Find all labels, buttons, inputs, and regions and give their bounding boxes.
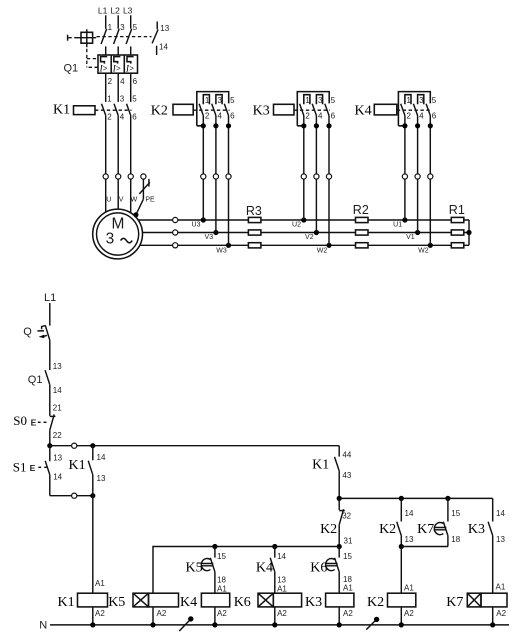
wire to K1 coil (92, 496, 94, 594)
wire K3 13 to K7 coil (492, 536, 494, 594)
svg-text:K7: K7 (446, 595, 463, 610)
svg-text:4: 4 (419, 112, 424, 121)
svg-text:K2: K2 (320, 522, 337, 537)
svg-text:W3: W3 (216, 247, 227, 254)
svg-text:L1: L1 (98, 6, 108, 16)
K2 terminal pole2 (213, 174, 218, 179)
K3 pole 1 lower wire (303, 116, 305, 221)
rotor bus 3 wire (140, 244, 469, 246)
svg-text:44: 44 (342, 450, 351, 459)
pushbutton S0 NC blade (50, 414, 54, 430)
svg-text:4: 4 (318, 112, 323, 121)
PE tick (148, 179, 150, 187)
svg-text:15: 15 (343, 552, 352, 561)
N tap 2 dot (374, 617, 379, 622)
coil K5 box (149, 593, 179, 607)
contact K3 upper wire (492, 498, 494, 521)
svg-text:1: 1 (108, 23, 113, 32)
svg-text:13: 13 (97, 474, 106, 483)
node V1 (415, 230, 420, 235)
contactor K3 pole 3 blade (325, 104, 329, 116)
svg-text:6: 6 (133, 77, 138, 86)
node N K5 (150, 622, 155, 627)
K2 node pole3 (226, 123, 231, 128)
terminal rail2 (72, 493, 77, 498)
svg-text:14: 14 (405, 509, 414, 518)
contact K3 blade (488, 522, 493, 536)
node N K7 (490, 622, 495, 627)
node K1 branch bottom (90, 493, 95, 498)
node W3 (226, 243, 231, 248)
wire W into motor (130, 179, 132, 213)
contactor K3 coil box (274, 104, 295, 115)
wire K5 coil to N (152, 607, 154, 625)
resistor R3b (248, 230, 261, 235)
svg-text:V: V (119, 196, 124, 203)
node N K6 (272, 622, 277, 627)
K3 terminal pole1 (301, 174, 306, 179)
pushbutton S1 upper wire (49, 446, 51, 462)
contact K5 delay symbol (201, 558, 213, 570)
contactor K1 pole 3 blade (127, 104, 131, 116)
svg-text:13: 13 (160, 24, 169, 33)
svg-text:K4: K4 (180, 595, 197, 610)
contact Q1 aux blade (45, 370, 50, 385)
svg-text:A1: A1 (277, 584, 287, 593)
svg-text:22: 22 (53, 431, 62, 440)
node N K2 (399, 622, 404, 627)
node rail2r K2no (399, 496, 404, 501)
svg-text:5: 5 (432, 96, 437, 105)
Q1 aux contact lower tick (156, 46, 158, 55)
contactor K1 link dashed (95, 109, 132, 111)
svg-text:K6: K6 (234, 595, 251, 610)
contactor K2 coil box (173, 104, 193, 115)
svg-text:1: 1 (305, 96, 310, 105)
K3 pole 3 lower wire (328, 116, 330, 246)
rail2 left wire (50, 495, 93, 497)
svg-text:K4: K4 (355, 104, 372, 119)
contactor K2 pole 3 blade (224, 104, 228, 116)
wire K1 43 to rail2r (338, 471, 340, 499)
svg-text:K7: K7 (417, 522, 434, 537)
svg-text:4: 4 (218, 112, 223, 121)
svg-text:3: 3 (218, 96, 223, 105)
coil K4 box (201, 593, 229, 607)
contact K7 blade (443, 522, 448, 536)
svg-text:13: 13 (405, 535, 414, 544)
svg-text:5: 5 (331, 96, 336, 105)
svg-text:3: 3 (318, 96, 323, 105)
N tap 1 dot (188, 616, 193, 621)
breaker Q1 trip unit box (98, 55, 138, 73)
switch Q latch (37, 326, 45, 331)
Q1 aux contact upper tick (156, 22, 158, 30)
coil K2 box (388, 593, 416, 607)
svg-text:5: 5 (132, 94, 137, 103)
wire K4 coil to N (214, 607, 216, 625)
svg-text:K1: K1 (312, 457, 329, 472)
right closure wire (468, 220, 470, 245)
rotor bus 1 wire (138, 219, 469, 221)
terminal rotor bus 2 (173, 230, 178, 235)
svg-text:A2: A2 (217, 609, 227, 618)
svg-text:R2: R2 (353, 203, 369, 217)
node right closure (466, 230, 471, 235)
Q1 actuator square (81, 32, 93, 43)
Q1 actuator cross horizontal (77, 37, 96, 39)
svg-text:U3: U3 (192, 221, 201, 228)
K4 pole 1 lower wire (404, 116, 406, 221)
switch Q blade (45, 325, 50, 340)
svg-text:K5: K5 (185, 561, 202, 576)
wire K1 to motor W (130, 115, 132, 173)
contactor K1 pole 1 blade (102, 104, 106, 116)
K3 pole 2 lower wire (315, 116, 317, 233)
svg-text:18: 18 (451, 535, 460, 544)
PE junction dot on motor (133, 212, 138, 217)
Q1 actuator cross vertical (86, 29, 88, 47)
svg-text:K1: K1 (53, 103, 70, 118)
contactor K3 pole 1 blade (300, 104, 304, 116)
terminal PE (141, 174, 146, 179)
svg-text:U1: U1 (393, 221, 402, 228)
svg-text:5: 5 (230, 96, 235, 105)
contactor K4 bridge comb (398, 92, 430, 126)
svg-text:2: 2 (108, 77, 113, 86)
svg-text:L3: L3 (123, 6, 133, 16)
motor M1 outer circle (93, 209, 143, 259)
K3 terminal pole2 (314, 174, 319, 179)
pushbutton S1 NO blade (45, 461, 50, 475)
motor label ~ (121, 238, 133, 242)
terminal rail1 (72, 443, 77, 448)
svg-text:K2: K2 (379, 522, 396, 537)
K4 terminal pole1 (402, 174, 407, 179)
K3 node pole1 (301, 123, 306, 128)
svg-text:1: 1 (205, 96, 210, 105)
node K1 branch top (90, 443, 95, 448)
Q1 dashed stub lower (89, 66, 98, 68)
svg-text:18: 18 (217, 576, 226, 585)
svg-text:S1: S1 (13, 460, 27, 475)
contact K6 delay symbol (326, 558, 338, 570)
node K5 contact top (212, 544, 217, 549)
K3 node pole3 (326, 123, 331, 128)
svg-text:A1: A1 (404, 583, 414, 592)
rotor bus 2 wire (143, 232, 470, 234)
wire Q1 to K1 phase 2 (117, 46, 119, 55)
svg-text:A1: A1 (95, 579, 105, 588)
contact K1 aux blade (88, 461, 93, 475)
svg-text:K5: K5 (108, 595, 125, 610)
svg-text:N: N (39, 620, 47, 632)
svg-text:15: 15 (217, 552, 226, 561)
svg-text:43: 43 (342, 471, 351, 480)
svg-text:A2: A2 (95, 609, 105, 618)
contact K1 aux upper wire (92, 446, 94, 461)
svg-text:6: 6 (331, 112, 336, 121)
wire K7 18 to link (447, 536, 449, 547)
svg-text:K1: K1 (69, 458, 86, 473)
contactor K3 link dashed (294, 109, 330, 111)
wire K2-K7 bottom link (401, 546, 448, 548)
wire Q1 to K1 phase 3 (130, 46, 132, 55)
svg-text:R1: R1 (449, 203, 465, 217)
breaker Q1 pole 3 blade (126, 29, 132, 44)
K4 node pole2 (415, 123, 420, 128)
motor M1 inner circle (97, 213, 139, 255)
svg-text:A2: A2 (496, 609, 506, 618)
svg-text:>: > (103, 64, 108, 73)
svg-text:A1: A1 (343, 583, 353, 592)
resistor R2a (356, 217, 369, 222)
svg-text:14: 14 (277, 552, 286, 561)
wire Q1 to S0 (49, 385, 51, 416)
resistor R1c (451, 243, 464, 248)
svg-text:2: 2 (205, 112, 210, 121)
Q1 handle dashed link (68, 37, 81, 39)
svg-text:V1: V1 (406, 234, 415, 241)
N tap 2 slash (366, 621, 375, 630)
coil K6 timer box (258, 593, 273, 607)
svg-text:14: 14 (97, 453, 106, 462)
rail2 right wire (339, 497, 493, 499)
Q1 aux contact blade (152, 29, 158, 43)
K2 pole 2 lower wire (215, 116, 217, 233)
svg-text:32: 32 (342, 511, 351, 520)
N tap 1 slash (179, 620, 190, 631)
svg-text:L1: L1 (44, 292, 56, 304)
Q1 mechanical linkage dashed (97, 36, 152, 38)
coil K1 box (78, 593, 108, 607)
svg-text:K3: K3 (468, 522, 485, 537)
wire S0 to rail1 (49, 430, 51, 446)
node U3 (201, 217, 206, 222)
contactor K3 pole 2 blade (312, 104, 316, 116)
wire K2 coil drop (400, 547, 402, 594)
svg-text:U2: U2 (292, 221, 301, 228)
wire K5 18 to K4 coil (214, 572, 216, 593)
svg-text:W2: W2 (317, 247, 328, 254)
node W2 (326, 243, 331, 248)
svg-text:L2: L2 (110, 6, 120, 16)
K2 node pole2 (213, 123, 218, 128)
Q1 latch symbol cell 3 (127, 57, 134, 64)
svg-text:K2: K2 (367, 595, 384, 610)
svg-text:R3: R3 (246, 204, 262, 218)
svg-text:>: > (129, 64, 134, 73)
terminal V (116, 174, 121, 179)
svg-text:S0: S0 (13, 413, 27, 428)
contact K5 blade (210, 558, 215, 572)
svg-text:A2: A2 (343, 609, 353, 618)
svg-text:13: 13 (496, 535, 505, 544)
coil K3 box (326, 593, 354, 607)
node V3 (213, 230, 218, 235)
svg-text:V2: V2 (305, 234, 314, 241)
svg-text:3: 3 (120, 23, 125, 32)
svg-text:14: 14 (53, 473, 62, 482)
node N K1 (90, 622, 95, 627)
contactor K2 bridge comb (197, 92, 229, 126)
contact K5 upper wire (214, 547, 216, 558)
line3 wire (153, 547, 339, 594)
svg-text:3: 3 (419, 96, 424, 105)
contactor K3 bridge comb (297, 92, 329, 126)
resistor R3a (248, 217, 261, 222)
svg-text:A2: A2 (277, 609, 287, 618)
svg-text:1: 1 (107, 94, 112, 103)
coil K7 timer box (467, 593, 481, 607)
contact K1 44-43 blade (335, 457, 340, 471)
terminal rotor bus 3 (173, 243, 178, 248)
svg-text:A1: A1 (496, 582, 506, 591)
rail1 wire (50, 445, 339, 447)
contact K7 delay symbol (434, 523, 446, 535)
contact K2 NO upper wire (400, 498, 402, 521)
svg-text:3: 3 (106, 231, 115, 248)
contact K2 NC upper wire (338, 498, 340, 510)
svg-text:V3: V3 (205, 234, 214, 241)
Q1 box divider 2 (123, 55, 125, 73)
contact K4 aux blade (270, 558, 275, 572)
node rail2r K2nc (337, 496, 342, 501)
contact K1 aux lower wire (92, 475, 94, 496)
wire L1 drop to Q1 (105, 15, 107, 28)
svg-text:6: 6 (132, 113, 137, 122)
contact K6 blade (335, 558, 340, 572)
svg-text:14: 14 (159, 43, 168, 52)
node N K3 (337, 622, 342, 627)
svg-text:K3: K3 (305, 595, 322, 610)
svg-text:K1: K1 (58, 595, 75, 610)
pushbutton S0 NC seat (50, 415, 56, 417)
svg-text:2: 2 (407, 112, 412, 121)
svg-text:E: E (30, 463, 36, 473)
wire K2 31 to node (338, 525, 340, 547)
K4 terminal pole2 (415, 174, 420, 179)
contactor K4 pole 1 blade (401, 104, 405, 116)
contact K7 upper wire (447, 498, 449, 521)
breaker Q1 pole 1 blade (101, 29, 107, 44)
contactor K2 link dashed (193, 109, 229, 111)
wire K3 coil to N (338, 607, 340, 625)
svg-text:1: 1 (407, 96, 412, 105)
contactor K4 link dashed (397, 109, 432, 111)
Q1 actuator dashed drop (86, 49, 88, 68)
contactor K4 coil box (374, 104, 397, 115)
svg-text:A2: A2 (404, 609, 414, 618)
K4 node pole3 (428, 123, 433, 128)
K3 terminal pole3 (326, 174, 331, 179)
contactor K1 coil box (74, 106, 96, 115)
wire L3 drop to Q1 (130, 15, 132, 28)
wire K7 coil to N (492, 607, 494, 625)
svg-text:Q: Q (23, 326, 32, 338)
node N K4 (212, 622, 217, 627)
contact K4 aux upper wire (274, 547, 276, 558)
contact K1 44-43 upper wire (338, 446, 340, 457)
svg-text:14: 14 (496, 509, 505, 518)
K4 pole 2 lower wire (417, 116, 419, 233)
PE diagonal to motor frame (136, 199, 143, 214)
svg-text:K4: K4 (256, 561, 273, 576)
svg-text:13: 13 (277, 576, 286, 585)
PE slash (139, 182, 150, 194)
wire K6 coil to N (274, 607, 276, 625)
contactor K2 pole 1 blade (199, 104, 203, 116)
svg-text:14: 14 (53, 386, 62, 395)
wire K4 13 to K6 coil (274, 572, 276, 593)
wire V into motor (117, 179, 119, 209)
contact K2 NC blade (339, 509, 343, 525)
wire U into motor (105, 179, 107, 212)
wire K2 13 to node (400, 536, 402, 547)
svg-text:K3: K3 (253, 104, 270, 119)
svg-text:2: 2 (107, 113, 112, 122)
resistor R1a (451, 217, 464, 222)
K3 node pole2 (314, 123, 319, 128)
Q1 latch symbol cell 1 (101, 57, 108, 64)
svg-text:PE: PE (145, 196, 155, 203)
coil K5 timer box (133, 593, 149, 607)
resistor R1b (451, 230, 464, 235)
wire K1 to motor U (105, 115, 107, 173)
svg-text:A2: A2 (157, 609, 167, 618)
svg-text:W2: W2 (418, 247, 429, 254)
N rail wire (50, 624, 509, 626)
svg-text:Q1: Q1 (64, 63, 79, 75)
node U1 (402, 217, 407, 222)
svg-text:3: 3 (120, 94, 125, 103)
svg-text:13: 13 (53, 362, 62, 371)
svg-text:Q1: Q1 (28, 374, 43, 386)
K2 terminal pole3 (226, 174, 231, 179)
contactor K1 pole 2 blade (114, 104, 118, 116)
node K4 contact top (272, 544, 277, 549)
wire L2 drop to Q1 (117, 15, 119, 28)
svg-text:U: U (106, 196, 111, 203)
wire S1 to rail2 (49, 475, 51, 496)
node rail2r K7 (445, 496, 450, 501)
contact K6 upper wire (338, 547, 340, 558)
node K2 coil top (399, 544, 404, 549)
Q1 handle end tick (67, 35, 69, 41)
svg-text:W: W (131, 196, 138, 203)
node line3 right (337, 544, 342, 549)
node U2 (301, 217, 306, 222)
K2 pole 1 lower wire (202, 116, 204, 221)
svg-text:31: 31 (344, 537, 353, 546)
node W2 right (428, 243, 433, 248)
wire K1 coil to N (92, 607, 94, 625)
PE wire below terminal (142, 179, 144, 199)
contactor K4 pole 2 blade (413, 104, 417, 116)
svg-text:A1: A1 (217, 584, 227, 593)
resistor R2c (356, 243, 369, 248)
wire L1 to Q (49, 303, 51, 326)
svg-text:5: 5 (133, 23, 138, 32)
svg-text:K2: K2 (151, 104, 168, 119)
K2 terminal pole1 (201, 174, 206, 179)
contact K2 NC seat (339, 510, 345, 512)
contactor K4 pole 3 blade (426, 104, 430, 116)
K2 node pole1 (201, 123, 206, 128)
node V2 (314, 230, 319, 235)
node S0 junction (47, 443, 52, 448)
wire K1 to motor V (117, 115, 119, 173)
